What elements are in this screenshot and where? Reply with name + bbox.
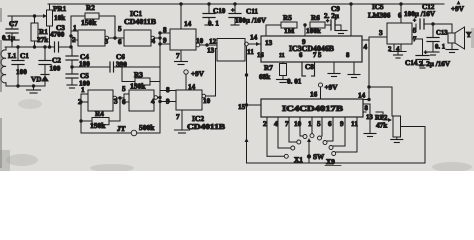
IC IC4 CD4017B box bbox=[261, 99, 363, 117]
op-amp U1 pins: IC1 gate1 pins 1,2 bbox=[71, 24, 78, 44]
wire feedback vertical x160 bbox=[159, 33, 161, 133]
svg-text:R4: R4 bbox=[95, 110, 104, 118]
svg-text:0. 01: 0. 01 bbox=[287, 78, 302, 86]
node C1 bottom dot bbox=[16, 84, 19, 87]
svg-text:7: 7 bbox=[176, 52, 180, 60]
svg-text:3: 3 bbox=[379, 29, 383, 37]
svg-text:12: 12 bbox=[209, 38, 217, 46]
gate IC2-C pins 8,9 bbox=[160, 86, 176, 106]
node rail C11 dot bbox=[233, 2, 236, 5]
svg-text:3: 3 bbox=[114, 98, 118, 106]
ground IC2 pin7 bbox=[175, 110, 190, 133]
node C2 top dot bbox=[43, 45, 46, 48]
power +9V arrow top right bbox=[451, 1, 465, 14]
capacitor C14 2.2u/16V bbox=[405, 50, 451, 68]
svg-text:0. 1: 0. 1 bbox=[435, 44, 446, 51]
svg-text:10: 10 bbox=[203, 97, 211, 105]
svg-text:C14: C14 bbox=[405, 59, 418, 67]
svg-text:10k: 10k bbox=[54, 14, 65, 22]
capacitor C1 100 bbox=[12, 47, 29, 86]
svg-text:14: 14 bbox=[188, 83, 196, 91]
svg-text:+9V: +9V bbox=[191, 70, 205, 78]
svg-text:100µ /16V: 100µ /16V bbox=[404, 10, 436, 18]
svg-text:16: 16 bbox=[310, 91, 318, 99]
wire gate4 output 11 to IC3 pin14 bbox=[247, 34, 261, 57]
ground IC4 pin8 bbox=[364, 134, 376, 137]
gate IC1-C CD4011B bbox=[170, 29, 200, 50]
switch contact from pin7 bbox=[289, 128, 301, 144]
svg-text:C7: C7 bbox=[9, 20, 18, 28]
svg-text:100: 100 bbox=[50, 65, 61, 73]
svg-text:4: 4 bbox=[364, 43, 368, 51]
switch contact X9 from pin11 bbox=[325, 128, 357, 166]
svg-text:5: 5 bbox=[318, 52, 322, 59]
labels IC4 output pins 2 4 7 10 1 5 6 9 11 bbox=[263, 120, 358, 128]
node C12/C13 dot bbox=[431, 22, 434, 25]
capacitor C5 100 bbox=[66, 67, 90, 88]
svg-text:IC5: IC5 bbox=[372, 3, 384, 11]
svg-text:JT: JT bbox=[117, 125, 126, 133]
capacitor C12 100u/16V output bbox=[404, 3, 449, 35]
node rail C10 dot bbox=[207, 2, 210, 5]
node R1 top dot bbox=[33, 14, 36, 17]
svg-text:27k: 27k bbox=[37, 36, 48, 44]
gate IC1-C pins 8,9 bbox=[163, 26, 167, 45]
svg-text:2. 2µ: 2. 2µ bbox=[324, 12, 340, 20]
gate IC2-B CD4011B bbox=[129, 90, 158, 111]
svg-text:14: 14 bbox=[358, 92, 366, 100]
capacitor C10 0.1 bbox=[203, 4, 226, 28]
wire IC4 pin15 reset bbox=[238, 103, 261, 111]
svg-text:SW: SW bbox=[313, 153, 325, 161]
svg-text:150k: 150k bbox=[130, 82, 146, 91]
resistor R4 150k bbox=[81, 98, 120, 130]
resistor R3 150k bbox=[122, 67, 160, 91]
wire gate2 out to gate3 in bbox=[152, 33, 171, 45]
svg-text:1M: 1M bbox=[284, 27, 295, 35]
switch contact from pin4 bbox=[278, 128, 295, 150]
capacitor C11 100u/16V bbox=[229, 4, 267, 25]
ground C14 bbox=[417, 65, 429, 68]
switch SW pole bbox=[307, 138, 325, 161]
potentiometer RP2 47k bbox=[375, 115, 401, 138]
svg-text:VD: VD bbox=[31, 76, 41, 84]
ground IC3 pin5 bbox=[328, 62, 340, 77]
node reset pin15 dot bbox=[245, 103, 248, 106]
gate IC1-B pins 5,6 bbox=[118, 25, 124, 46]
capacitor C3 4700 bbox=[50, 24, 65, 52]
label CD4011B IC2 bbox=[187, 122, 225, 131]
wire IC3 pin4 to LM386 pin3 bbox=[369, 29, 387, 37]
svg-text:2: 2 bbox=[72, 36, 76, 44]
wire IC1 pin14 to +9V rail bbox=[181, 4, 192, 29]
svg-text:2: 2 bbox=[263, 120, 267, 128]
svg-text:9: 9 bbox=[302, 38, 306, 46]
wire LM386 pin7 to C14 bbox=[412, 36, 423, 56]
svg-text:15: 15 bbox=[238, 103, 246, 111]
svg-text:13: 13 bbox=[366, 114, 373, 121]
node R4 left dot bbox=[79, 119, 82, 122]
capacitor C9 2.2u bbox=[324, 5, 341, 30]
wire IC4 pin13 to RP2 wiper bbox=[363, 112, 392, 122]
switch contact from pin10 bbox=[300, 128, 307, 139]
switch contact from pin6 bbox=[323, 128, 333, 145]
ground LM386 pins 2,4 bbox=[388, 44, 406, 58]
node rail-R1/PR1 junction dot bbox=[179, 2, 182, 5]
svg-text:8: 8 bbox=[346, 52, 350, 59]
capacitor C13 0.1 zobel bbox=[427, 24, 448, 55]
gate IC1-D CD4011B bbox=[217, 39, 248, 62]
potentiometer PR1 10k bbox=[43, 4, 67, 47]
svg-text:100k: 100k bbox=[306, 27, 321, 35]
resistor R1 27k bbox=[31, 16, 48, 47]
power +9V IC2 pin14 bbox=[184, 70, 205, 91]
svg-text:3: 3 bbox=[105, 38, 109, 46]
wire IC2 gate1 out bbox=[114, 98, 124, 106]
svg-text:9: 9 bbox=[340, 120, 344, 128]
capacitor C7 bbox=[2, 16, 19, 47]
svg-text:4: 4 bbox=[152, 37, 156, 45]
wire SW arrow up bbox=[245, 138, 249, 142]
svg-text:47k: 47k bbox=[376, 122, 387, 130]
ground speaker bbox=[446, 43, 458, 53]
svg-text:9: 9 bbox=[166, 98, 170, 106]
diode VD bbox=[31, 72, 49, 86]
gate IC2-B pins 5,6 bbox=[122, 85, 129, 106]
svg-text:8: 8 bbox=[166, 86, 170, 94]
label CD4011B IC1 bbox=[124, 17, 156, 26]
wire VCO output vertical to IC4 pin14 bbox=[358, 37, 369, 100]
node R5/R6 junction to pin9 bbox=[302, 23, 307, 46]
node IC2 gate1 input dot bbox=[79, 100, 82, 103]
svg-text:+9V: +9V bbox=[451, 5, 465, 13]
node gate2 output dots bbox=[158, 31, 161, 45]
speaker Y bbox=[448, 24, 472, 49]
wire to RP2 top bbox=[363, 87, 392, 116]
svg-text:IC3CD4046B: IC3CD4046B bbox=[289, 44, 335, 53]
svg-text:14: 14 bbox=[250, 34, 258, 42]
svg-text:6: 6 bbox=[299, 52, 303, 59]
node PR1 bottom dot bbox=[48, 45, 51, 48]
gate IC2-C CD4011B bbox=[176, 90, 206, 110]
gate IC1-D pin13 wire from IC2 gate out bbox=[207, 47, 217, 97]
svg-text:PR1: PR1 bbox=[53, 5, 67, 13]
gate IC1-B CD4011B bbox=[124, 30, 155, 46]
variable resistor JT 500k bbox=[81, 121, 160, 136]
svg-text:+: + bbox=[413, 18, 416, 24]
wire +9V top rail bbox=[48, 3, 444, 5]
svg-text:68k: 68k bbox=[259, 73, 270, 81]
svg-text:R3: R3 bbox=[134, 71, 143, 79]
ground C9 bbox=[335, 31, 347, 34]
resistor R6 100k bbox=[306, 14, 325, 35]
svg-text:9: 9 bbox=[163, 37, 167, 45]
svg-text:10: 10 bbox=[196, 37, 204, 45]
svg-text:0.1µ: 0.1µ bbox=[2, 34, 16, 42]
svg-text:RP2: RP2 bbox=[375, 115, 388, 122]
wires IC4 output stubs bbox=[267, 117, 357, 128]
svg-text:2. 2µ /16V: 2. 2µ /16V bbox=[419, 60, 451, 68]
svg-text:8: 8 bbox=[365, 105, 369, 112]
svg-text:6: 6 bbox=[328, 120, 332, 128]
svg-text:L1: L1 bbox=[8, 52, 17, 60]
ground detector bbox=[27, 84, 41, 93]
svg-text:C8: C8 bbox=[305, 63, 314, 71]
svg-text:CD4011B: CD4011B bbox=[124, 17, 156, 26]
svg-text:11: 11 bbox=[247, 48, 254, 56]
node IC4 pin14 junction dots bbox=[367, 85, 370, 101]
IC IC5 LM386 box bbox=[368, 3, 412, 44]
svg-text:6: 6 bbox=[118, 38, 122, 46]
node gate4 input dot bbox=[205, 43, 208, 46]
switch contact X1 from pin2 bbox=[267, 128, 303, 164]
svg-text:5: 5 bbox=[317, 120, 321, 128]
svg-text:4700: 4700 bbox=[50, 31, 65, 39]
wire rail to IC3 top bbox=[350, 4, 352, 36]
wire reset bus vertical to switch rail bbox=[246, 46, 248, 163]
ground R7 bbox=[277, 76, 290, 83]
wire LM386 pin6 to rail bbox=[400, 4, 402, 23]
svg-text:R6: R6 bbox=[311, 14, 320, 22]
label IC2 bbox=[192, 114, 204, 123]
node rail IC3 dot bbox=[349, 2, 352, 5]
labels IC3 bottom pins 16 11 6 7 5 8 bbox=[257, 52, 350, 59]
gate IC2-A pins 1,2 bbox=[78, 86, 88, 133]
svg-text:CD4011B: CD4011B bbox=[187, 122, 225, 131]
node C1 top dot bbox=[16, 45, 19, 48]
svg-text:C11: C11 bbox=[246, 8, 258, 16]
wire gate3 out to gate4 in pin12 bbox=[196, 37, 217, 46]
node gate1 input dots bbox=[69, 34, 72, 48]
svg-text:1: 1 bbox=[81, 86, 85, 94]
capacitor C6 390 bbox=[72, 53, 160, 72]
wire detector bottom bbox=[6, 85, 45, 87]
svg-text:6: 6 bbox=[122, 98, 126, 106]
gate IC1-A CD4011B bbox=[78, 30, 109, 46]
svg-text:500k: 500k bbox=[139, 123, 155, 132]
svg-text:7: 7 bbox=[285, 120, 289, 128]
wire IC3 pin13 to R5 bbox=[265, 25, 273, 47]
svg-text:R1: R1 bbox=[39, 28, 48, 36]
svg-text:C10: C10 bbox=[213, 7, 226, 15]
svg-text:100µ /16V: 100µ /16V bbox=[235, 17, 267, 25]
svg-text:150k: 150k bbox=[90, 121, 106, 130]
wire detector node bbox=[5, 46, 71, 48]
node reset bus dot bbox=[245, 73, 248, 76]
node rail LM386 pin6 dot bbox=[399, 2, 402, 5]
svg-text:13: 13 bbox=[265, 39, 273, 47]
svg-text:+9V: +9V bbox=[325, 84, 339, 92]
gate IC2-A CD4011B bbox=[88, 90, 117, 111]
capacitor C2 100 bbox=[39, 47, 61, 73]
wire gate1 out to gate2 in bbox=[105, 38, 125, 46]
svg-text:C13: C13 bbox=[436, 30, 448, 37]
resistor R7 68k on IC3 pin11 bbox=[259, 62, 287, 81]
svg-text:4: 4 bbox=[274, 120, 278, 128]
IC IC3 CD4046B box bbox=[261, 36, 362, 62]
svg-text:X9: X9 bbox=[326, 158, 335, 166]
wire IC2 gate3 out to IC1 pin13 bbox=[203, 96, 216, 105]
switch contact from pin1 bbox=[310, 128, 314, 138]
node JT top dot bbox=[158, 100, 161, 103]
wire IC4 pin8 bbox=[363, 104, 370, 133]
svg-text:7: 7 bbox=[176, 113, 180, 121]
svg-text:IC4CD4017B: IC4CD4017B bbox=[282, 104, 344, 113]
svg-text:13: 13 bbox=[207, 47, 215, 55]
wire IC1 gate1 input vertical bbox=[70, 16, 72, 47]
capacitor C4 100 bbox=[66, 47, 90, 68]
svg-text:C1: C1 bbox=[20, 52, 29, 60]
ground IC1 pin7 bbox=[175, 50, 188, 65]
wire RP2 bottom to switch rail bbox=[397, 127, 425, 164]
power +9V IC4 pin16 bbox=[310, 83, 338, 99]
svg-text:14: 14 bbox=[184, 20, 192, 28]
svg-text:C2: C2 bbox=[52, 57, 61, 65]
svg-text:4: 4 bbox=[151, 98, 155, 106]
svg-text:1: 1 bbox=[73, 24, 77, 32]
svg-text:100: 100 bbox=[16, 68, 27, 76]
inductor L1 bbox=[1, 47, 17, 86]
node R1 bottom dot bbox=[33, 45, 36, 48]
svg-text:0. 1: 0. 1 bbox=[208, 20, 219, 28]
capacitor C8 0.01 on IC3 pins 6,7 bbox=[287, 62, 315, 86]
node gate1 output dot bbox=[113, 36, 116, 39]
svg-text:8: 8 bbox=[163, 26, 167, 34]
svg-text:11: 11 bbox=[279, 53, 285, 59]
svg-text:R5: R5 bbox=[283, 14, 292, 22]
wire SW to bottom rail bbox=[308, 159, 310, 163]
label IC3 pin4 bbox=[362, 40, 369, 51]
ground RP2 bbox=[391, 140, 403, 143]
svg-text:5: 5 bbox=[122, 85, 126, 93]
resistor R2 150k feedback bbox=[71, 4, 115, 38]
svg-text:5: 5 bbox=[118, 25, 122, 33]
wire switch bottom rail bbox=[247, 162, 426, 164]
node IC2 gate1 out dot bbox=[118, 96, 121, 99]
wire C7/R1 to PR1 wiper bbox=[8, 15, 44, 17]
node loop junction dot bbox=[158, 96, 161, 99]
switch contact from pin5 bbox=[318, 128, 323, 140]
label IC1 bbox=[130, 9, 142, 18]
wire IC2 gate2 out bbox=[151, 98, 160, 106]
svg-text:1: 1 bbox=[308, 120, 312, 128]
svg-text:150k: 150k bbox=[81, 18, 97, 27]
ground IC3 pin8 bbox=[348, 62, 360, 78]
switch contact from pin9 bbox=[329, 128, 345, 150]
svg-text:R2: R2 bbox=[86, 4, 95, 12]
svg-text:LM386: LM386 bbox=[368, 12, 391, 20]
resistor R5 1M bbox=[266, 14, 297, 35]
svg-text:16: 16 bbox=[257, 52, 264, 59]
svg-text:7: 7 bbox=[313, 52, 317, 59]
svg-text:R7: R7 bbox=[264, 64, 273, 72]
node C4/C5/C6 dot bbox=[70, 65, 73, 68]
